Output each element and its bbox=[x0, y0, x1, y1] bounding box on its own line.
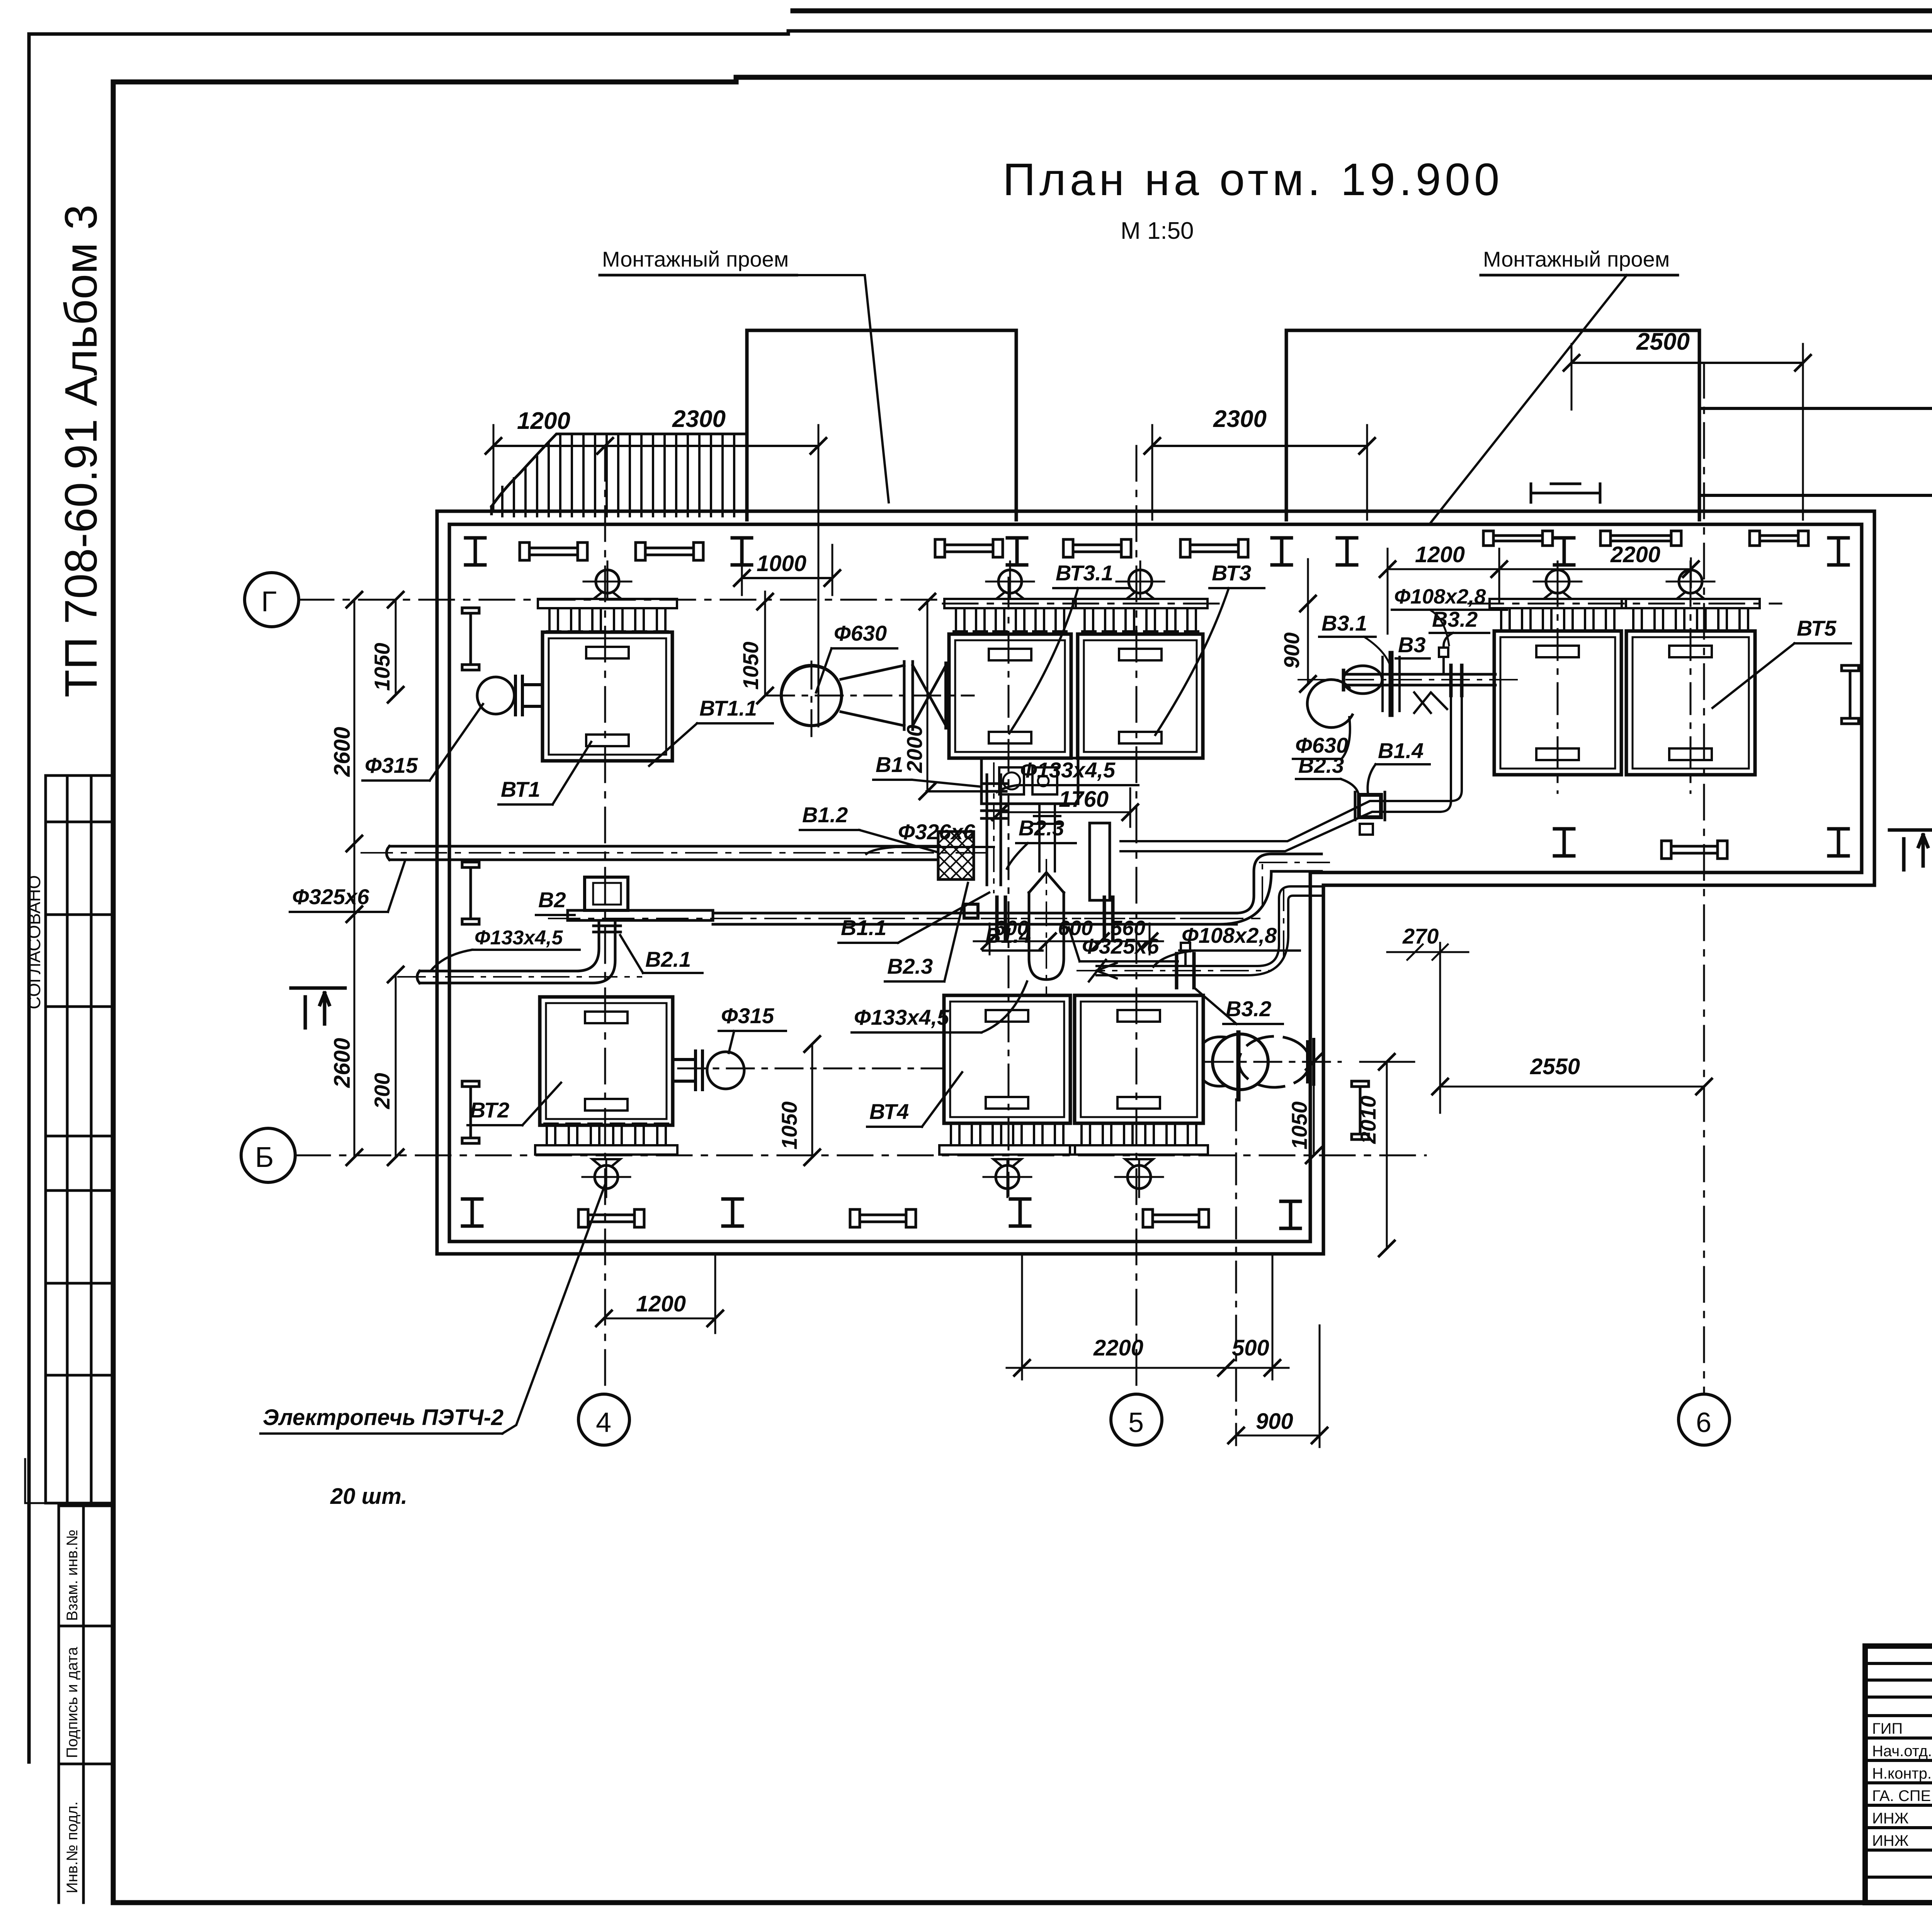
apparatus VT4 box 1 bbox=[944, 995, 1070, 1123]
ramp hatch lines bbox=[502, 434, 734, 516]
svg-text:ВТ3: ВТ3 bbox=[1212, 561, 1251, 585]
exhaust bell V1.4 bottle bbox=[1029, 872, 1064, 980]
fan symbol below VT4 box2 bbox=[1128, 1165, 1151, 1189]
comb above VT5 box1 bbox=[1490, 599, 1626, 608]
elbow V2.1 down bbox=[420, 920, 621, 983]
elbow oval at V3 left bbox=[1344, 666, 1382, 694]
svg-text:Ф315: Ф315 bbox=[365, 753, 418, 777]
svg-text:900: 900 bbox=[1256, 1409, 1293, 1434]
svg-text:1200: 1200 bbox=[1415, 542, 1465, 567]
comb above VT3 bbox=[1073, 599, 1207, 608]
svg-text:2300: 2300 bbox=[1213, 406, 1267, 432]
svg-text:6: 6 bbox=[1696, 1407, 1711, 1438]
left margin lower table bbox=[59, 1506, 113, 1903]
svg-text:Инв.№ подл.: Инв.№ подл. bbox=[64, 1801, 81, 1893]
svg-text:5: 5 bbox=[1128, 1407, 1144, 1438]
svg-text:В3: В3 bbox=[1398, 633, 1426, 657]
elbow F315 at VT2 bbox=[673, 1051, 702, 1090]
svg-text:2000: 2000 bbox=[902, 724, 927, 773]
svg-text:1200: 1200 bbox=[636, 1291, 686, 1316]
tap symbol on F108 bbox=[1181, 943, 1190, 966]
svg-text:1760: 1760 bbox=[1059, 787, 1109, 812]
pipe B2 run to V3.2 bbox=[1219, 854, 1321, 924]
montage opening 1 walls bbox=[747, 330, 1016, 520]
svg-text:Электропечь ПЭТЧ-2: Электропечь ПЭТЧ-2 bbox=[263, 1405, 503, 1430]
svg-text:ГА. СПЕЦ: ГА. СПЕЦ bbox=[1872, 1787, 1932, 1804]
staircase wing top line bbox=[1699, 408, 1932, 784]
dim 1000 bbox=[742, 577, 832, 579]
svg-text:В2.3: В2.3 bbox=[1019, 816, 1064, 840]
scan page edge top bbox=[793, 9, 1932, 14]
dim chain 1200 2300 line bbox=[493, 445, 818, 447]
dim ticks bbox=[486, 438, 826, 454]
svg-text:ТП 708-60.91 Альбом 3: ТП 708-60.91 Альбом 3 bbox=[56, 204, 107, 697]
svg-text:В1.4: В1.4 bbox=[1378, 738, 1423, 763]
svg-text:20 шт.: 20 шт. bbox=[330, 1484, 407, 1509]
fan F630 bottom right with ellipse bbox=[1213, 1034, 1268, 1090]
svg-text:Ф325х6: Ф325х6 bbox=[1082, 934, 1159, 958]
svg-text:Нач.отд.: Нач.отд. bbox=[1872, 1743, 1932, 1760]
elbow F315 at VT1 bbox=[515, 676, 543, 715]
svg-text:1200: 1200 bbox=[517, 408, 570, 434]
left margin upper table rows bbox=[46, 776, 113, 1503]
fan symbol above VT1 bbox=[596, 570, 619, 593]
svg-text:Ф133х4,5: Ф133х4,5 bbox=[854, 1005, 949, 1029]
building inner wall bbox=[449, 524, 1862, 1242]
svg-text:ВТ5: ВТ5 bbox=[1797, 616, 1837, 640]
svg-text:2010: 2010 bbox=[1356, 1095, 1380, 1144]
axis 5 line bbox=[1136, 446, 1138, 1393]
apparatus VT2 box bbox=[540, 997, 673, 1125]
I-beam column symbols top row bbox=[466, 538, 1848, 565]
svg-text:Взам. инв.№: Взам. инв.№ bbox=[64, 1529, 81, 1621]
svg-text:2600: 2600 bbox=[330, 1038, 355, 1088]
corner bracket mark bbox=[25, 1459, 46, 1503]
svg-text:2200: 2200 bbox=[1610, 542, 1660, 567]
riser from C up to V3 bbox=[1440, 685, 1462, 812]
apparatus VT5 box 1 bbox=[1494, 631, 1621, 775]
axis B line bbox=[295, 1155, 1426, 1156]
section mark II left bbox=[291, 988, 345, 1028]
svg-text:М 1:50: М 1:50 bbox=[1121, 218, 1194, 244]
dim 900 bottom bbox=[1236, 1325, 1320, 1447]
comb below VT4 box2 bbox=[1070, 1145, 1208, 1155]
hatched ramp outline bbox=[492, 434, 746, 514]
svg-text:В1.2: В1.2 bbox=[802, 803, 848, 827]
dim 2010 bbox=[1360, 1062, 1414, 1248]
title block outer bbox=[1865, 1646, 1932, 1903]
dim 1200 top right bbox=[1388, 549, 1499, 634]
vertical dim 1050 left bbox=[395, 600, 397, 1157]
dim 2200 top right bbox=[1499, 558, 1691, 587]
svg-text:Ф133х4,5: Ф133х4,5 bbox=[1020, 758, 1116, 782]
svg-text:2500: 2500 bbox=[1636, 328, 1690, 355]
axis 5 circle bbox=[1111, 1394, 1162, 1445]
unit V2 box bbox=[585, 877, 628, 910]
apparatus VT1 box bbox=[543, 632, 672, 761]
pipe F108 centerline bbox=[1077, 889, 1284, 971]
svg-text:В3.1: В3.1 bbox=[1321, 611, 1367, 635]
apparatus VT5 box 2 bbox=[1626, 631, 1755, 775]
svg-text:Ф108х2,8: Ф108х2,8 bbox=[1182, 923, 1277, 947]
riser V2.3 flanged vertical bbox=[981, 775, 1006, 885]
dim 1760 bbox=[1000, 788, 1130, 827]
dim 900 vertical right bbox=[1307, 559, 1309, 684]
pipe V2 run B1 bbox=[713, 913, 1236, 924]
dim 1200 bottom bbox=[604, 1254, 715, 1333]
svg-text:СОГЛАСОВАНО: СОГЛАСОВАНО bbox=[24, 875, 44, 1009]
svg-text:1000: 1000 bbox=[757, 551, 806, 576]
svg-text:Монтажный проем: Монтажный проем bbox=[602, 247, 789, 271]
svg-text:ИНЖ: ИНЖ bbox=[1872, 1832, 1909, 1849]
section mark II right bbox=[1889, 830, 1932, 870]
dim chain 2300 axis5 line bbox=[1152, 445, 1367, 447]
svg-text:2550: 2550 bbox=[1530, 1054, 1580, 1079]
svg-text:200: 200 bbox=[370, 1073, 394, 1109]
flex insert V1.2 crosshatch bbox=[938, 832, 974, 879]
pipe B2 centerline bbox=[989, 862, 1329, 918]
pipe F325x6 end cap bbox=[386, 846, 389, 860]
titleblock row texts bbox=[1872, 1720, 1932, 1849]
cylinder V1 right bbox=[1090, 823, 1110, 900]
wall tie dumbbell right section bottom bbox=[1662, 841, 1727, 859]
unit V2 base plate bbox=[568, 910, 713, 920]
wall tie dumbbells bottom row bbox=[578, 1209, 1209, 1227]
leader Montazhny proem 2 bbox=[1430, 275, 1627, 524]
comb above VT5 box2 bbox=[1622, 599, 1760, 608]
fan axis vertical lower bbox=[1235, 1099, 1237, 1445]
svg-text:Б: Б bbox=[255, 1141, 274, 1173]
svg-text:1050: 1050 bbox=[777, 1101, 801, 1150]
svg-text:В2: В2 bbox=[538, 888, 566, 912]
pipe F133 diagonal run C bbox=[1121, 801, 1451, 851]
svg-text:2200: 2200 bbox=[1093, 1335, 1143, 1361]
vertical dim 2000 bbox=[927, 602, 929, 791]
takeoff line to dim 2000 bbox=[927, 790, 984, 793]
montage opening 2 walls bbox=[1286, 330, 1699, 520]
left margin upper table columns bbox=[46, 776, 91, 1503]
comb above VT1 bbox=[538, 599, 677, 608]
comb above VT3.1 bbox=[944, 599, 1076, 608]
apparatus VT3 box 1 bbox=[949, 634, 1071, 758]
pipe V3 centerline bbox=[1298, 679, 1519, 680]
fan symbol above VT3 bbox=[1129, 570, 1152, 593]
leader Montazhny proem 1 bbox=[797, 275, 889, 502]
svg-text:ВТ4: ВТ4 bbox=[869, 1099, 909, 1124]
axis 6 line bbox=[1703, 363, 1705, 1393]
pipe F325x6 centerline bbox=[361, 852, 989, 854]
comb below VT4 box1 bbox=[939, 1145, 1075, 1155]
filter V1 group bbox=[981, 758, 1078, 804]
svg-text:В1.1: В1.1 bbox=[841, 915, 886, 940]
svg-text:ИНЖ: ИНЖ bbox=[1872, 1810, 1909, 1827]
wall tie dumbbells top row bbox=[520, 531, 1808, 560]
flange pair on B2 left bbox=[997, 897, 1005, 940]
svg-text:270: 270 bbox=[1402, 924, 1439, 948]
dim 1050 right bbox=[1313, 1062, 1315, 1155]
svg-text:1050: 1050 bbox=[370, 643, 394, 691]
vertical dim 1050 second bbox=[764, 592, 766, 696]
valve V2.3 square on pipe bbox=[964, 904, 978, 918]
vertical bone symbols left wall bbox=[462, 608, 479, 1143]
svg-text:1050: 1050 bbox=[1287, 1101, 1311, 1150]
svg-text:2600: 2600 bbox=[330, 727, 355, 777]
axis 6 circle bbox=[1679, 1394, 1730, 1445]
svg-text:4: 4 bbox=[596, 1407, 611, 1438]
svg-text:ВТ1: ВТ1 bbox=[501, 777, 540, 801]
svg-text:ВТ1.1: ВТ1.1 bbox=[699, 696, 757, 720]
vertical bone symbol right section bbox=[1842, 665, 1859, 724]
fan symbol above VT3.1 bbox=[998, 570, 1022, 593]
svg-text:План на отм. 19.900: План на отм. 19.900 bbox=[1003, 154, 1503, 205]
tap symbol on V3 pipe bbox=[1439, 648, 1448, 674]
svg-text:1050: 1050 bbox=[738, 641, 763, 690]
dim 2500 line top right bbox=[1571, 362, 1803, 364]
pipe F108 thin run bbox=[1097, 886, 1321, 975]
vertical bone symbol right wall notch bbox=[1352, 1081, 1369, 1139]
svg-text:ВТ3.1: ВТ3.1 bbox=[1056, 561, 1113, 585]
arrow on F108 left end bbox=[1089, 960, 1117, 981]
axis B circle bbox=[241, 1128, 295, 1182]
pipe V3 assembly horizontal bbox=[1345, 674, 1495, 685]
svg-text:ВТ2: ВТ2 bbox=[470, 1098, 509, 1122]
fan symbol below VT4 box1 bbox=[996, 1165, 1019, 1189]
flange pair on B2 right bbox=[1104, 897, 1113, 940]
fan symbol above VT5 box1 bbox=[1546, 570, 1569, 593]
building outer wall bbox=[437, 511, 1874, 1254]
fan symbol above VT5 box2 bbox=[1679, 570, 1702, 593]
fan symbol below VT2 bbox=[595, 1165, 618, 1189]
pipe B1 centerline bbox=[549, 918, 1260, 919]
svg-text:В2.1: В2.1 bbox=[645, 947, 691, 971]
pipe F325x6 main horizontal bbox=[389, 846, 937, 860]
svg-text:В2.3: В2.3 bbox=[1298, 753, 1344, 777]
svg-text:Н.контр.: Н.контр. bbox=[1872, 1765, 1932, 1782]
title block left rows bbox=[1865, 1663, 1932, 1877]
svg-text:Монтажный проем: Монтажный проем bbox=[1483, 247, 1670, 271]
svg-text:Ф325х6: Ф325х6 bbox=[292, 884, 369, 909]
axis 4 line bbox=[604, 446, 606, 1393]
heavy valve bar V3 bbox=[1389, 653, 1394, 714]
arrow K into V3 bbox=[1414, 692, 1447, 713]
dim chain 600 600 560 bbox=[974, 940, 1163, 942]
comb below VT2 bbox=[535, 1145, 677, 1155]
axis G circle bbox=[245, 573, 299, 627]
vertical dim 1050 mid bbox=[811, 1044, 813, 1157]
equipment centerline VT5 box1 bbox=[1557, 575, 1559, 793]
svg-text:В3.2: В3.2 bbox=[1432, 607, 1478, 631]
svg-text:Ф630: Ф630 bbox=[834, 621, 887, 645]
I-beam symbols right section bottom row bbox=[1554, 829, 1848, 856]
svg-text:500: 500 bbox=[1232, 1335, 1269, 1361]
svg-text:В2.3: В2.3 bbox=[887, 954, 933, 978]
bracket symbol above wall bbox=[1531, 484, 1600, 502]
apparatus VT4 box 2 bbox=[1075, 995, 1203, 1123]
pipe F133 centerline bbox=[398, 976, 641, 978]
equipment centerline x2610 bbox=[1008, 578, 1010, 1196]
hook curve bbox=[1307, 680, 1352, 728]
apparatus VT3 box 2 bbox=[1078, 634, 1203, 758]
svg-text:Ф326х6: Ф326х6 bbox=[898, 820, 975, 844]
svg-text:В1: В1 bbox=[876, 752, 903, 777]
dim 2200 500 bottom bbox=[1007, 1254, 1289, 1379]
svg-text:В1.4: В1.4 bbox=[985, 923, 1031, 947]
fan F630 top with cone bbox=[781, 665, 842, 726]
dim extension lines bbox=[493, 425, 818, 726]
svg-text:Подпись и дата: Подпись и дата bbox=[64, 1647, 81, 1758]
svg-text:2300: 2300 bbox=[672, 406, 726, 432]
svg-text:Ф108х2,8: Ф108х2,8 bbox=[1394, 585, 1486, 608]
vertical dim chain 2600 2600 bbox=[354, 600, 355, 1157]
svg-text:Ф315: Ф315 bbox=[721, 1003, 774, 1028]
equipment centerline VT5 box2 bbox=[1690, 575, 1692, 793]
svg-text:ГИП: ГИП bbox=[1872, 1720, 1903, 1737]
inner frame left lower bbox=[113, 775, 182, 1903]
pipe F133 end cap left bbox=[417, 971, 420, 983]
axis G line bbox=[299, 599, 939, 601]
flange pair on F108 bbox=[1177, 954, 1194, 988]
axis 4 circle bbox=[578, 1394, 629, 1445]
outer border left lower part bbox=[27, 661, 31, 1762]
svg-text:900: 900 bbox=[1279, 633, 1304, 668]
svg-text:Ф133х4,5: Ф133х4,5 bbox=[474, 927, 563, 949]
flange pair V3 right bbox=[1451, 665, 1462, 696]
valve V1.4 on pipe C bbox=[1359, 795, 1381, 817]
I-beam column symbols bottom row bbox=[463, 1199, 1300, 1228]
svg-text:В3.2: В3.2 bbox=[1226, 997, 1271, 1021]
svg-text:Г: Г bbox=[261, 585, 277, 617]
